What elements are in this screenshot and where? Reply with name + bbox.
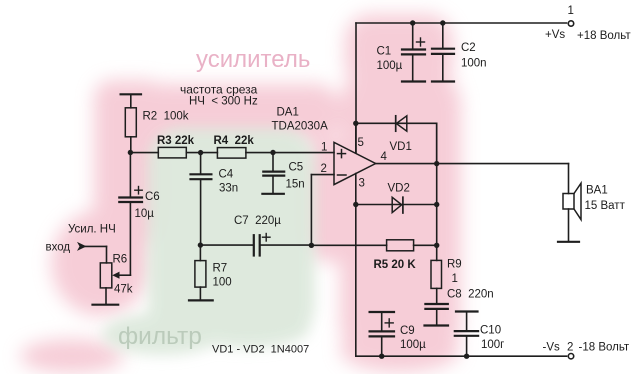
resistor R7 <box>195 245 206 300</box>
svg-text:C4: C4 <box>219 169 234 181</box>
svg-text:100µ: 100µ <box>377 60 403 72</box>
wire feedback column <box>436 123 438 245</box>
svg-text:1: 1 <box>568 5 574 17</box>
node feedback left <box>309 243 314 248</box>
wire +Vs top rail <box>356 22 567 24</box>
op-amp minus sign <box>338 174 347 176</box>
svg-text:C5: C5 <box>289 162 304 174</box>
svg-text:100µ: 100µ <box>400 339 426 351</box>
node VD1 left <box>353 121 358 126</box>
node VD2 left <box>353 202 358 207</box>
capacitor C6 <box>119 153 142 276</box>
ground bar under C8 <box>425 324 449 326</box>
svg-text:47k: 47k <box>114 284 133 296</box>
svg-text:усилитель: усилитель <box>196 46 310 73</box>
node C10 rail <box>464 354 469 359</box>
capacitor C9 <box>370 312 394 356</box>
svg-text:2: 2 <box>567 342 573 354</box>
svg-text:5: 5 <box>358 137 364 149</box>
svg-text:15n: 15n <box>286 179 305 191</box>
svg-text:Усил. НЧ: Усил. НЧ <box>68 224 116 236</box>
svg-text:100г: 100г <box>481 339 504 351</box>
wire R4 to op-amp pin1 <box>246 152 334 154</box>
svg-text:R6: R6 <box>113 254 128 266</box>
capacitor C10 <box>455 312 478 357</box>
svg-text:R5 20 K: R5 20 K <box>374 259 417 271</box>
wire filter bottom / C7 row <box>200 244 253 246</box>
svg-text:4: 4 <box>381 151 388 163</box>
node C9 rail <box>379 354 384 359</box>
op-amp DA1 triangle <box>334 142 376 184</box>
ground bar under C2 <box>432 80 454 82</box>
ground bar above C9 <box>370 311 394 313</box>
wire -Vs bottom rail <box>356 355 567 357</box>
svg-text:1: 1 <box>452 273 458 285</box>
svg-text:фильтр: фильтр <box>118 323 202 350</box>
node VD2 right <box>434 202 439 207</box>
speaker BA1 <box>563 183 581 241</box>
wire pin5 <box>355 123 357 153</box>
svg-text:DA1: DA1 <box>277 107 299 119</box>
svg-text:100: 100 <box>213 277 232 289</box>
svg-text:C2: C2 <box>461 42 476 54</box>
svg-text:3: 3 <box>359 178 365 190</box>
wire +Vs drop to VD1/pin5 <box>355 23 357 153</box>
node rail-C1 <box>410 20 415 25</box>
ground bar under C5 <box>262 193 283 195</box>
svg-text:C6: C6 <box>145 191 160 203</box>
wire node A to R3 <box>130 152 158 154</box>
resistor R3 <box>158 147 186 158</box>
capacitor C8 <box>425 304 447 325</box>
background highlight blobs <box>20 14 461 373</box>
op-amp plus sign <box>338 153 346 155</box>
svg-text:C9: C9 <box>400 325 415 337</box>
diode VD2 <box>356 197 437 213</box>
capacitor C5 <box>263 153 284 194</box>
resistor R9 <box>431 245 442 303</box>
diode VD1 <box>356 116 437 164</box>
node output-VD <box>434 161 439 166</box>
wire input to R6 <box>85 245 107 247</box>
svg-text:-18 Вольт: -18 Вольт <box>579 342 630 354</box>
capacitor C1 <box>402 23 425 81</box>
terminal 2 (-Vs) <box>568 354 573 359</box>
svg-text:C7 220µ: C7 220µ <box>234 215 281 227</box>
svg-text:R7: R7 <box>213 263 228 275</box>
svg-text:15 Ватт: 15 Ватт <box>585 200 626 212</box>
svg-text:НЧ < 300 Hz: НЧ < 300 Hz <box>189 96 258 108</box>
node B (R3/R4/C4) <box>198 150 203 155</box>
ground bar under BA1 <box>558 241 579 243</box>
ground bar under C1 <box>402 80 425 82</box>
svg-text:VD1: VD1 <box>390 141 412 153</box>
svg-text:C10: C10 <box>480 325 501 337</box>
svg-text:+18 Вольт: +18 Вольт <box>577 30 631 42</box>
svg-text:BA1: BA1 <box>586 185 608 197</box>
wire pin2 feedback <box>311 174 334 176</box>
node R5 right <box>434 243 439 248</box>
svg-text:+Vs: +Vs <box>545 29 565 41</box>
svg-text:R3 22k: R3 22k <box>157 135 195 147</box>
svg-text:TDA2030A: TDA2030A <box>272 121 329 133</box>
ground bar above C10 <box>456 310 478 312</box>
input arrowhead <box>77 242 87 251</box>
node C (R4/C5) <box>270 150 275 155</box>
svg-text:R2 100k: R2 100k <box>143 111 189 123</box>
wire C6 wiper to R6 <box>117 274 130 276</box>
svg-text:R4 22k: R4 22k <box>214 135 255 147</box>
node A (R2/R3/C6) <box>128 150 133 155</box>
node R7 top <box>198 242 203 247</box>
wire pin3 down to -Vs rail <box>355 174 357 357</box>
wiper arrowhead <box>112 272 119 279</box>
svg-text:C8 220n: C8 220n <box>447 289 494 301</box>
svg-text:вход: вход <box>46 242 71 254</box>
capacitor C4 <box>191 153 212 246</box>
svg-text:VD2: VD2 <box>388 183 410 195</box>
svg-text:10µ: 10µ <box>135 208 155 220</box>
resistor R4 <box>217 148 246 159</box>
ground bar under R6 <box>93 304 119 306</box>
svg-text:C1: C1 <box>377 46 392 58</box>
terminal 1 (+Vs) <box>568 21 573 26</box>
svg-text:100n: 100n <box>461 58 487 70</box>
wire R3 to R4 <box>186 152 217 154</box>
ground bar under R7 <box>189 299 213 301</box>
node rail-C2 <box>440 20 445 25</box>
svg-text:частота среза: частота среза <box>180 83 258 97</box>
svg-text:33n: 33n <box>219 183 238 195</box>
potentiometer R6 <box>100 263 112 305</box>
capacitor C7 <box>254 234 312 256</box>
resistor R5 <box>311 240 436 251</box>
svg-text:-Vs: -Vs <box>543 342 561 354</box>
capacitor C2 <box>432 23 454 81</box>
svg-text:VD1 - VD2 1N4007: VD1 - VD2 1N4007 <box>212 344 309 356</box>
ground bar above R2 <box>121 93 141 95</box>
resistor R2 <box>125 94 136 152</box>
wire output to speaker <box>376 163 569 165</box>
svg-text:2: 2 <box>321 163 327 175</box>
svg-text:R9: R9 <box>447 259 462 271</box>
svg-text:1: 1 <box>321 142 327 154</box>
